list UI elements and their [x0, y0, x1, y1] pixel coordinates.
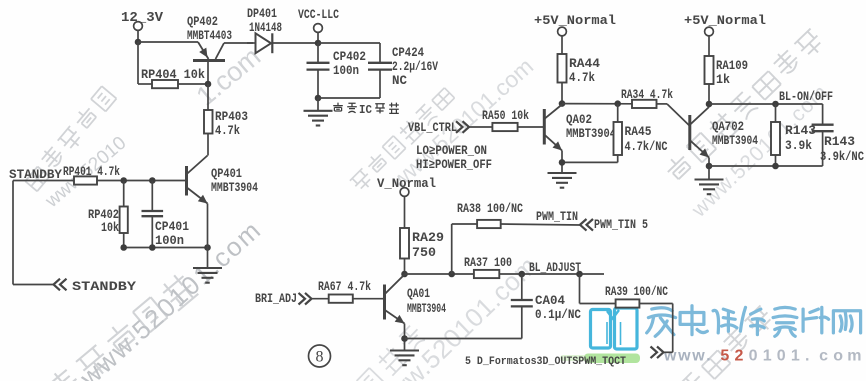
junction QA01 collector node [401, 271, 408, 278]
svg-text:w: w [677, 348, 691, 365]
ground GND QA01 [390, 351, 419, 366]
junction QA702 collector node [706, 101, 713, 108]
wire RA29 to QA01 collector node [404, 259, 406, 275]
wire VCC node to CP424 branch [318, 42, 380, 44]
wire mid rail left [405, 273, 474, 275]
junction RA38 branch node [448, 271, 455, 278]
junction QA01 emitter node [401, 335, 408, 342]
wire emitter bottom rail [124, 247, 208, 249]
label watermark www middle [385, 53, 538, 194]
label RP401 label [63, 165, 120, 179]
wire VCC-LLC stub [317, 33, 319, 44]
capacitor R143 NC [812, 125, 834, 132]
svg-text:PWM_TIN 5: PWM_TIN 5 [594, 218, 648, 232]
svg-text:c: c [819, 348, 828, 365]
svg-text:1k: 1k [716, 73, 730, 87]
svg-text:MMBT3904: MMBT3904 [211, 181, 258, 195]
label DP401 value 1N4148 [249, 21, 282, 35]
resistor RA29 [400, 228, 409, 259]
svg-text:RP403: RP403 [215, 110, 248, 124]
label CA04 ref [535, 294, 565, 308]
svg-text:RA45: RA45 [625, 125, 652, 139]
capacitor CP401 [142, 211, 164, 216]
wire BRI_ADJ to RA67 [312, 298, 329, 300]
label CP424 ref [392, 46, 424, 60]
svg-text:2.2μ/16V: 2.2μ/16V [392, 60, 438, 74]
svg-text:MMBT3904: MMBT3904 [407, 302, 446, 316]
label RA44 ref [569, 57, 601, 71]
wire QA702 emitter drop [708, 158, 710, 180]
wire RA67 to QA01 base [353, 298, 385, 300]
connector VBL_CTRL in [456, 121, 469, 133]
svg-text:2: 2 [735, 348, 744, 365]
wire mid rail right [499, 273, 604, 275]
wire RA39 riser [580, 274, 616, 304]
wire BL rail [709, 104, 823, 125]
junction RA45 top node [614, 100, 621, 107]
wire STANDBY rail [13, 180, 74, 182]
connector BRI_ADJ in [299, 293, 312, 305]
wire 12_3V rail to QP402 emitter [138, 41, 198, 43]
junction QA02 emitter node [559, 159, 566, 166]
label VCC-LLC net label [298, 8, 339, 22]
label R143 ref [785, 124, 816, 138]
junction bottom node CP401 [149, 244, 156, 251]
svg-text:5 D_Formatos3D_OUTSPWM_TQCT: 5 D_Formatos3D_OUTSPWM_TQCT [465, 356, 626, 368]
highlight green bar [560, 354, 640, 364]
label QP402 value MMBT4403 [187, 29, 232, 43]
wire RA39 out [639, 304, 672, 353]
junction R143 top node [772, 101, 779, 108]
junction 12_3V node [135, 39, 142, 46]
resistor RA38 [477, 220, 501, 228]
label watermark www bottom-mid [369, 250, 543, 381]
svg-text:10k: 10k [101, 221, 119, 235]
svg-text:RP404 10k: RP404 10k [141, 68, 205, 82]
label note IC [359, 104, 372, 117]
label RA29 ref [412, 231, 444, 245]
svg-text:RA39 100/NC: RA39 100/NC [605, 285, 668, 299]
label QA01 ref [407, 287, 430, 301]
label RP402 value [101, 221, 119, 235]
page number 8 [309, 345, 331, 367]
label watermark hanzi top-right [663, 29, 826, 182]
label STANDBY net label top [9, 167, 62, 182]
wire collector node to RA34 [562, 103, 632, 105]
junction RA39 branch node [576, 271, 583, 278]
svg-text:QP402: QP402 [187, 15, 218, 29]
wire STANDBY left drop [13, 181, 53, 285]
wire RP404 to base node [178, 83, 208, 85]
svg-text:5: 5 [720, 348, 729, 365]
label RP404 label [141, 68, 205, 82]
resistor RA34 [632, 100, 657, 108]
wire QP401 emitter drop [207, 204, 209, 268]
label watermark hanzi bottom-right [655, 305, 776, 381]
svg-text:RA37 100: RA37 100 [464, 256, 512, 270]
wire RA45 top [617, 104, 619, 122]
label watermark www bottom-left [73, 214, 267, 381]
wire RA50 to QA02 base [518, 126, 545, 128]
terminal +5V_Normal 1 [558, 27, 567, 36]
svg-text:100n: 100n [333, 64, 359, 78]
svg-text:+5V_Normal: +5V_Normal [534, 13, 616, 28]
wire CP402 bottom [317, 70, 319, 98]
svg-text:0: 0 [749, 348, 758, 365]
connector STANDBY out [54, 279, 67, 291]
label watermark www upper-left part1 [41, 133, 131, 213]
junction CA04 node [519, 271, 526, 278]
svg-text:8: 8 [316, 349, 324, 366]
label QP401 ref [211, 167, 242, 181]
svg-text:BRI_ADJ: BRI_ADJ [255, 292, 297, 306]
resistor RA50 [492, 123, 517, 131]
label RA67 label [318, 280, 371, 294]
svg-text:BL_ADJUST: BL_ADJUST [529, 261, 581, 275]
wire base node to RP403 [207, 84, 209, 110]
svg-text:RA67 4.7k: RA67 4.7k [318, 280, 371, 294]
wire DP401 cathode to VCC-LLC node [272, 42, 318, 44]
label V_Normal net label [377, 177, 436, 191]
label STANDBY net label bottom [72, 279, 136, 294]
label 12_3V net label [121, 11, 164, 26]
label BL_ADJUST net label [529, 261, 581, 275]
label +5V_Normal net label 2 [684, 13, 766, 28]
svg-text:DP401: DP401 [247, 7, 277, 21]
label CP402 value 100n [333, 64, 359, 78]
terminal 12_3V [134, 22, 143, 31]
wire RA109 to collector node [708, 84, 710, 104]
wire RA38 riser [452, 224, 477, 274]
label PWM_TIN 5 pin label [594, 218, 648, 232]
svg-text:1N4148: 1N4148 [249, 21, 282, 35]
wire CP424 top [379, 43, 381, 62]
wire VBL_CTRL to RA50 [469, 126, 492, 128]
svg-text:0: 0 [777, 348, 786, 365]
label RP402 ref [88, 208, 119, 222]
svg-text:RA34 4.7k: RA34 4.7k [621, 88, 673, 102]
label +5V_Normal net label 1 [534, 13, 616, 28]
label watermark hanzi bottom-left corner [45, 271, 199, 381]
svg-text:RP402: RP402 [88, 208, 119, 222]
wire CA04 bottom [521, 306, 523, 338]
label RA44 value [569, 71, 595, 85]
resistor RP403 [204, 110, 213, 134]
svg-text:IC: IC [359, 104, 372, 117]
wire RP403 to QP401 collector [207, 134, 209, 156]
label CP402 ref [333, 50, 366, 64]
svg-text:4.7k: 4.7k [569, 71, 595, 85]
ground GND QA702 [695, 180, 724, 195]
junction RP404 node [205, 81, 212, 88]
label VBL_CTRL net label [408, 121, 457, 135]
wire +5V stub 1 [561, 36, 563, 54]
label R143 value [785, 139, 812, 153]
label QP402 ref [187, 15, 218, 29]
svg-text:100n: 100n [155, 234, 184, 248]
label watermark hanzi bottom-mid [357, 324, 427, 381]
svg-text:QA01: QA01 [407, 287, 430, 301]
resistor RA44 [558, 54, 567, 83]
svg-text:CA04: CA04 [535, 294, 565, 308]
svg-text:w: w [663, 348, 677, 365]
svg-text:VCC-LLC: VCC-LLC [298, 8, 339, 22]
label RA37 label [464, 256, 512, 270]
wire CA04 top [521, 274, 523, 300]
svg-text:0.1μ/NC: 0.1μ/NC [535, 308, 581, 322]
svg-text:CP401: CP401 [155, 220, 189, 234]
label watermark hanzi middle [350, 88, 455, 193]
svg-text:RA29: RA29 [412, 231, 444, 245]
svg-text:RA50 10k: RA50 10k [482, 109, 529, 123]
label CP401 ref [155, 220, 189, 234]
label DP401 ref [247, 7, 277, 21]
label QA01 value MMBT3904 [407, 302, 446, 316]
junction VCC-LLC node [315, 40, 322, 47]
svg-text:VBL_CTRL: VBL_CTRL [408, 121, 457, 135]
wire RP401 to QP401 base [97, 180, 187, 182]
connector RA39 out [651, 347, 664, 359]
svg-text:1: 1 [763, 348, 772, 365]
label QP401 value MMBT3904 [211, 181, 258, 195]
svg-text:NC: NC [392, 74, 407, 88]
svg-text:RA109: RA109 [716, 59, 748, 73]
svg-text:PWM_TIN: PWM_TIN [536, 210, 578, 224]
resistor RP401 [74, 176, 97, 184]
junction CP401 top node [149, 177, 156, 184]
wire R143NC bottom [822, 131, 824, 166]
transistor QA02 [544, 105, 562, 151]
label QA02 value MMBT3904 [566, 127, 616, 141]
label RP403 ref [215, 110, 248, 124]
transistor QA01 [385, 275, 405, 324]
resistor RA67 [329, 295, 353, 303]
resistor RP402 [120, 207, 128, 234]
logo book icon [591, 308, 638, 349]
label R143NC ref [824, 135, 855, 149]
label RA34 label [621, 88, 673, 102]
resistor RA109 [705, 56, 714, 84]
svg-text:3.9k: 3.9k [785, 139, 812, 153]
capacitor CA04 [511, 300, 533, 306]
label HI POWER_OFF note [416, 158, 492, 172]
label RA29 value [412, 246, 436, 260]
terminal VCC-LLC [314, 24, 323, 33]
svg-text:RA38 100/NC: RA38 100/NC [457, 202, 523, 216]
label LO POWER_ON note [416, 144, 487, 158]
svg-text:HI≥POWER_OFF: HI≥POWER_OFF [416, 158, 492, 172]
wire 12_3V stub [137, 31, 139, 43]
label page note D_Formatos [465, 356, 626, 368]
svg-text:CP402: CP402 [333, 50, 366, 64]
label note jiao [389, 103, 399, 114]
capacitor CP402 [307, 63, 330, 70]
svg-text:QP401: QP401 [211, 167, 242, 181]
label note kao [333, 103, 343, 111]
wire QA02 emitter drop [561, 151, 563, 173]
wire RP402 top [123, 181, 125, 207]
wire CP402 top [317, 43, 319, 62]
svg-text:750: 750 [412, 246, 436, 260]
svg-text:.: . [805, 348, 809, 365]
ground GND QP401 [193, 268, 222, 283]
svg-text:QA702: QA702 [712, 120, 744, 134]
wire RP402 bottom [123, 233, 125, 248]
wire gnd stub CP402 [317, 98, 319, 110]
svg-text:.: . [706, 348, 710, 365]
svg-text:STANDBY: STANDBY [72, 279, 136, 294]
diode DP401 [247, 33, 272, 53]
svg-text:w: w [691, 348, 705, 365]
wire CP401 top [151, 181, 153, 212]
junction QA02 collector node [559, 100, 566, 107]
label PWM_TIN net label [536, 210, 578, 224]
svg-text:MMBT3904: MMBT3904 [566, 127, 616, 141]
svg-text:CP424: CP424 [392, 46, 424, 60]
label CA04 value [535, 308, 581, 322]
svg-text:3.9k/NC: 3.9k/NC [820, 150, 864, 164]
label CP424 NC note [392, 74, 407, 88]
wire QP402 collector to DP401 [224, 42, 253, 44]
resistor RA37 [474, 270, 499, 278]
wire QA702 bottom rail [709, 165, 823, 167]
resistor R143 [771, 122, 780, 155]
label QA702 ref [712, 120, 744, 134]
svg-text:4.7k/NC: 4.7k/NC [625, 140, 668, 154]
svg-text:MMBT3904: MMBT3904 [712, 134, 758, 148]
label QA702 value MMBT3904 [712, 134, 758, 148]
wire RA34 to QA702 base [657, 104, 690, 126]
label BL-ON/OFF net label [779, 90, 833, 104]
connector PWM_TIN [580, 219, 593, 231]
terminal +5V_Normal 2 [705, 27, 714, 36]
wire RA45 bottom [562, 155, 618, 162]
label RA39 label [605, 285, 668, 299]
wire +5V stub 2 [708, 36, 710, 56]
label CP424 value 2.2u/16V [392, 60, 438, 74]
label watermark hanzi top-left [25, 86, 116, 191]
label R143NC value [820, 150, 864, 164]
transistor QP401 [187, 156, 208, 204]
wire QA01 bottom rail [405, 338, 522, 340]
transistor QP402 [193, 42, 225, 61]
svg-text:BL-ON/OFF: BL-ON/OFF [779, 90, 833, 104]
junction R143 bottom node [772, 163, 779, 170]
junction bottom node RP402 [120, 244, 127, 251]
logo url www.520101.com [663, 348, 862, 365]
logo text jiadian weixiu ziliao wang [647, 306, 861, 337]
resistor RA45 [614, 122, 623, 155]
wire RA38 to PWM_TIN [501, 224, 580, 225]
capacitor CP424 [368, 63, 392, 70]
svg-text:MMBT4403: MMBT4403 [187, 29, 232, 43]
junction bottom node QP401 emitter [204, 244, 211, 251]
junction CP402 gnd node [315, 95, 322, 102]
ground GND near CP402 [304, 111, 333, 126]
wire CP424 bottom [318, 70, 380, 98]
label RA109 value [716, 73, 730, 87]
label BRI_ADJ net label [255, 292, 297, 306]
label RA38 label [457, 202, 523, 216]
svg-text:1: 1 [791, 348, 800, 365]
resistor RP404 [152, 80, 178, 88]
label note jin [347, 103, 357, 113]
wire V_Normal stub [404, 197, 406, 229]
label RA109 ref [716, 59, 748, 73]
label RA50 label [482, 109, 529, 123]
label QA02 ref [566, 113, 592, 127]
svg-text:R143: R143 [824, 135, 855, 149]
svg-text:R143: R143 [785, 124, 816, 138]
svg-text:QA02: QA02 [566, 113, 592, 127]
svg-text:+5V_Normal: +5V_Normal [684, 13, 766, 28]
label watermark www right [687, 80, 833, 222]
ground GND QA02 [548, 173, 577, 188]
svg-text:RP401 4.7k: RP401 4.7k [63, 165, 120, 179]
label RP403 value [215, 124, 240, 138]
svg-text:RA44: RA44 [569, 57, 601, 71]
svg-text:4.7k: 4.7k [215, 124, 240, 138]
wire R143 bottom [775, 155, 777, 166]
label note guan [375, 104, 385, 114]
wire QA01 emitter drop [404, 324, 406, 351]
junction QA702 emitter node [706, 163, 713, 170]
svg-text:m: m [847, 348, 861, 365]
wire CP401 bottom [151, 216, 153, 247]
label RA45 ref [625, 125, 652, 139]
terminal V_Normal [400, 188, 409, 197]
wire 12_3V down to RP404 [138, 42, 152, 84]
junction RP402 top node [120, 177, 127, 184]
wire RA44 to collector node [561, 83, 563, 104]
resistor RA39 [616, 299, 640, 307]
svg-text:LO≥POWER_ON: LO≥POWER_ON [416, 144, 487, 158]
wire QP402 base down [207, 61, 209, 84]
wire R143 top [775, 104, 777, 122]
label CP401 value [155, 234, 184, 248]
svg-text:o: o [833, 348, 843, 365]
label RA45 value [625, 140, 668, 154]
label watermark www upper-left part2 [191, 41, 267, 111]
transistor QA702 [690, 107, 709, 158]
